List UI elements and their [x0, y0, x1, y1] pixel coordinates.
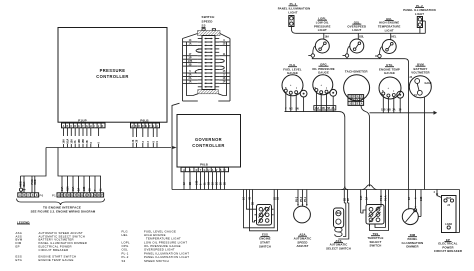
- svg-text:B: B: [23, 194, 25, 197]
- svg-text:I: I: [326, 87, 327, 90]
- svg-text:18: 18: [212, 182, 215, 185]
- svg-text:GOVERNOR: GOVERNOR: [195, 137, 222, 142]
- svg-text:15B: 15B: [82, 139, 85, 144]
- svg-text:16B: 16B: [386, 109, 391, 112]
- svg-text:HEL: HEL: [122, 233, 128, 237]
- svg-text:A: A: [361, 103, 363, 106]
- svg-text:S3: S3: [122, 259, 126, 263]
- svg-text:16A: 16A: [61, 186, 64, 191]
- svg-text:CONTROLLER: CONTROLLER: [96, 74, 128, 79]
- svg-text:U: U: [208, 169, 210, 172]
- svg-text:15B: 15B: [381, 109, 386, 112]
- svg-text:1C: 1C: [243, 197, 246, 200]
- svg-text:16B: 16B: [420, 196, 423, 201]
- svg-text:P6LB: P6LB: [140, 119, 149, 123]
- svg-text:7: 7: [94, 189, 97, 191]
- svg-text:28: 28: [220, 182, 223, 185]
- svg-text:2C: 2C: [216, 182, 219, 185]
- svg-text:DIMMER: DIMMER: [406, 245, 418, 249]
- svg-text:CONTROLLER: CONTROLLER: [192, 143, 224, 148]
- svg-text:A: A: [58, 194, 60, 197]
- svg-text:C: C: [70, 125, 72, 128]
- svg-text:F: F: [285, 108, 287, 111]
- svg-text:H: H: [81, 194, 83, 197]
- svg-text:2A: 2A: [74, 140, 77, 143]
- svg-text:1B: 1B: [208, 182, 211, 185]
- svg-text:SWITCH: SWITCH: [259, 244, 271, 248]
- svg-text:9: 9: [156, 141, 159, 143]
- svg-text:LOAD: LOAD: [445, 223, 452, 226]
- svg-text:TACHOMETER: TACHOMETER: [345, 69, 369, 73]
- svg-text:P5-3: P5-3: [300, 196, 303, 202]
- svg-text:14: 14: [399, 109, 402, 112]
- svg-text:18B: 18B: [78, 139, 81, 144]
- svg-text:1A: 1A: [188, 81, 191, 84]
- svg-text:SEE FIGURE 2.2. ENGINE WIRING: SEE FIGURE 2.2. ENGINE WIRING DIAGRAM: [31, 210, 96, 214]
- svg-text:6: 6: [200, 183, 203, 185]
- svg-text:A: A: [183, 169, 185, 172]
- svg-text:ETG: ETG: [16, 258, 23, 262]
- svg-text:24: 24: [414, 94, 417, 97]
- svg-text:ENGINE TEMP GAUGE: ENGINE TEMP GAUGE: [39, 258, 74, 262]
- svg-text:24: 24: [447, 204, 450, 207]
- svg-text:2: 2: [142, 141, 145, 143]
- svg-text:GAGE: GAGE: [425, 82, 432, 85]
- svg-text:2B: 2B: [86, 140, 89, 143]
- svg-text:15B: 15B: [326, 107, 331, 110]
- svg-text:G: G: [86, 125, 88, 128]
- svg-text:N: N: [98, 194, 100, 197]
- svg-text:1B: 1B: [277, 197, 280, 200]
- svg-text:SWITCH: SWITCH: [202, 15, 215, 19]
- svg-text:15A: 15A: [315, 107, 320, 110]
- svg-text:28: 28: [136, 139, 139, 142]
- svg-text:NG: NG: [289, 108, 293, 111]
- svg-text:15A: 15A: [70, 139, 73, 144]
- svg-text:6: 6: [98, 142, 101, 144]
- svg-text:16A: 16A: [63, 139, 66, 144]
- svg-text:B: B: [135, 125, 137, 128]
- svg-text:18B: 18B: [83, 186, 86, 191]
- svg-text:A: A: [63, 125, 65, 128]
- svg-text:B: B: [67, 125, 69, 128]
- svg-text:HEL: HEL: [392, 36, 397, 39]
- svg-text:SPEED SWITCH: SPEED SWITCH: [144, 259, 169, 263]
- svg-text:15: 15: [89, 188, 92, 191]
- svg-text:ADJUST: ADJUST: [296, 244, 308, 248]
- svg-text:CIRCUIT BREAKER: CIRCUIT BREAKER: [434, 249, 462, 253]
- svg-text:SN: SN: [295, 108, 299, 111]
- svg-text:P6-B: P6-B: [380, 195, 383, 201]
- svg-text:3B: 3B: [188, 63, 191, 66]
- svg-text:SELECT SWITCH: SELECT SWITCH: [326, 246, 351, 250]
- svg-text:11: 11: [204, 182, 207, 185]
- svg-text:2A: 2A: [331, 107, 334, 110]
- svg-text:+: +: [290, 84, 292, 87]
- svg-text:N1A: N1A: [67, 186, 70, 191]
- svg-text:C: C: [28, 194, 30, 197]
- svg-text:N1A: N1A: [66, 138, 69, 143]
- svg-text:2D: 2D: [224, 182, 227, 185]
- svg-text:G: G: [78, 194, 80, 197]
- svg-text:LIGHT: LIGHT: [415, 12, 424, 16]
- svg-text:A: A: [19, 194, 21, 197]
- svg-text:1A: 1A: [188, 43, 191, 46]
- svg-text:P6: P6: [40, 194, 44, 198]
- svg-text:C: C: [65, 194, 67, 197]
- svg-text:2A: 2A: [408, 197, 411, 200]
- svg-text:I: I: [296, 87, 297, 90]
- svg-text:2C: 2C: [347, 198, 350, 201]
- svg-text:EP: EP: [16, 245, 20, 249]
- svg-text:P6-A: P6-A: [385, 195, 388, 201]
- svg-text:RED: RED: [34, 179, 37, 184]
- svg-text:BLK: BLK: [23, 181, 26, 186]
- svg-text:K: K: [102, 125, 104, 128]
- svg-text:4: 4: [434, 191, 436, 194]
- svg-text:LIGHT: LIGHT: [318, 28, 327, 32]
- svg-text:A: A: [212, 169, 214, 172]
- svg-text:P6LB: P6LB: [200, 162, 208, 166]
- svg-text:30A: 30A: [336, 212, 341, 215]
- svg-text:OSL: OSL: [359, 36, 364, 39]
- svg-text:P1: P1: [52, 194, 56, 198]
- svg-text:2B: 2B: [189, 182, 192, 185]
- svg-text:GAUGE: GAUGE: [384, 71, 395, 75]
- svg-text:D: D: [196, 169, 198, 172]
- svg-text:SWITCH: SWITCH: [370, 244, 382, 248]
- svg-text:H: H: [90, 125, 92, 128]
- svg-text:+: +: [388, 87, 390, 90]
- svg-text:D: D: [68, 194, 70, 197]
- svg-text:24: 24: [410, 76, 413, 79]
- svg-text:D: D: [142, 125, 144, 128]
- svg-text:2B: 2B: [252, 202, 255, 205]
- svg-text:12: 12: [183, 182, 186, 185]
- svg-text:PRESSURE: PRESSURE: [100, 68, 126, 73]
- svg-text:2A: 2A: [392, 109, 395, 112]
- svg-text:P5-2: P5-2: [295, 196, 298, 202]
- svg-text:P5-1: P5-1: [304, 196, 307, 202]
- svg-text:LIGHT: LIGHT: [352, 28, 361, 32]
- svg-text:16A: 16A: [360, 195, 363, 200]
- svg-text:VOLTMETER: VOLTMETER: [411, 71, 429, 75]
- svg-text:BAT: BAT: [446, 197, 451, 200]
- svg-text:K: K: [88, 194, 90, 197]
- svg-text:M: M: [94, 194, 96, 197]
- svg-text:C: C: [353, 103, 355, 106]
- svg-text:P1UP: P1UP: [78, 119, 87, 123]
- svg-text:10B: 10B: [196, 180, 199, 185]
- svg-text:8: 8: [152, 141, 155, 143]
- svg-text:I: I: [394, 90, 395, 93]
- svg-text:11: 11: [100, 188, 103, 191]
- svg-text:S: S: [382, 90, 384, 93]
- svg-text:4B: 4B: [249, 197, 252, 200]
- svg-text:2A: 2A: [78, 188, 81, 191]
- svg-text:GAUGE: GAUGE: [318, 71, 329, 75]
- svg-text:C: C: [138, 125, 140, 128]
- svg-text:16B: 16B: [320, 107, 325, 110]
- svg-text:B: B: [61, 194, 63, 197]
- svg-text:D: D: [74, 125, 76, 128]
- svg-text:2: 2: [147, 141, 150, 143]
- svg-text:G: G: [204, 169, 206, 172]
- svg-text:LIGHT: LIGHT: [288, 10, 297, 14]
- svg-text:LIGHT: LIGHT: [385, 29, 394, 33]
- svg-text:16A: 16A: [325, 36, 330, 39]
- svg-text:15A: 15A: [72, 186, 75, 191]
- svg-text:D: D: [32, 194, 34, 197]
- svg-text:+: +: [321, 84, 323, 87]
- svg-text:CIRCUIT BREAKER: CIRCUIT BREAKER: [39, 248, 69, 252]
- svg-text:8: 8: [90, 142, 93, 144]
- svg-text:3A: 3A: [366, 197, 369, 200]
- svg-text:A: A: [131, 125, 133, 128]
